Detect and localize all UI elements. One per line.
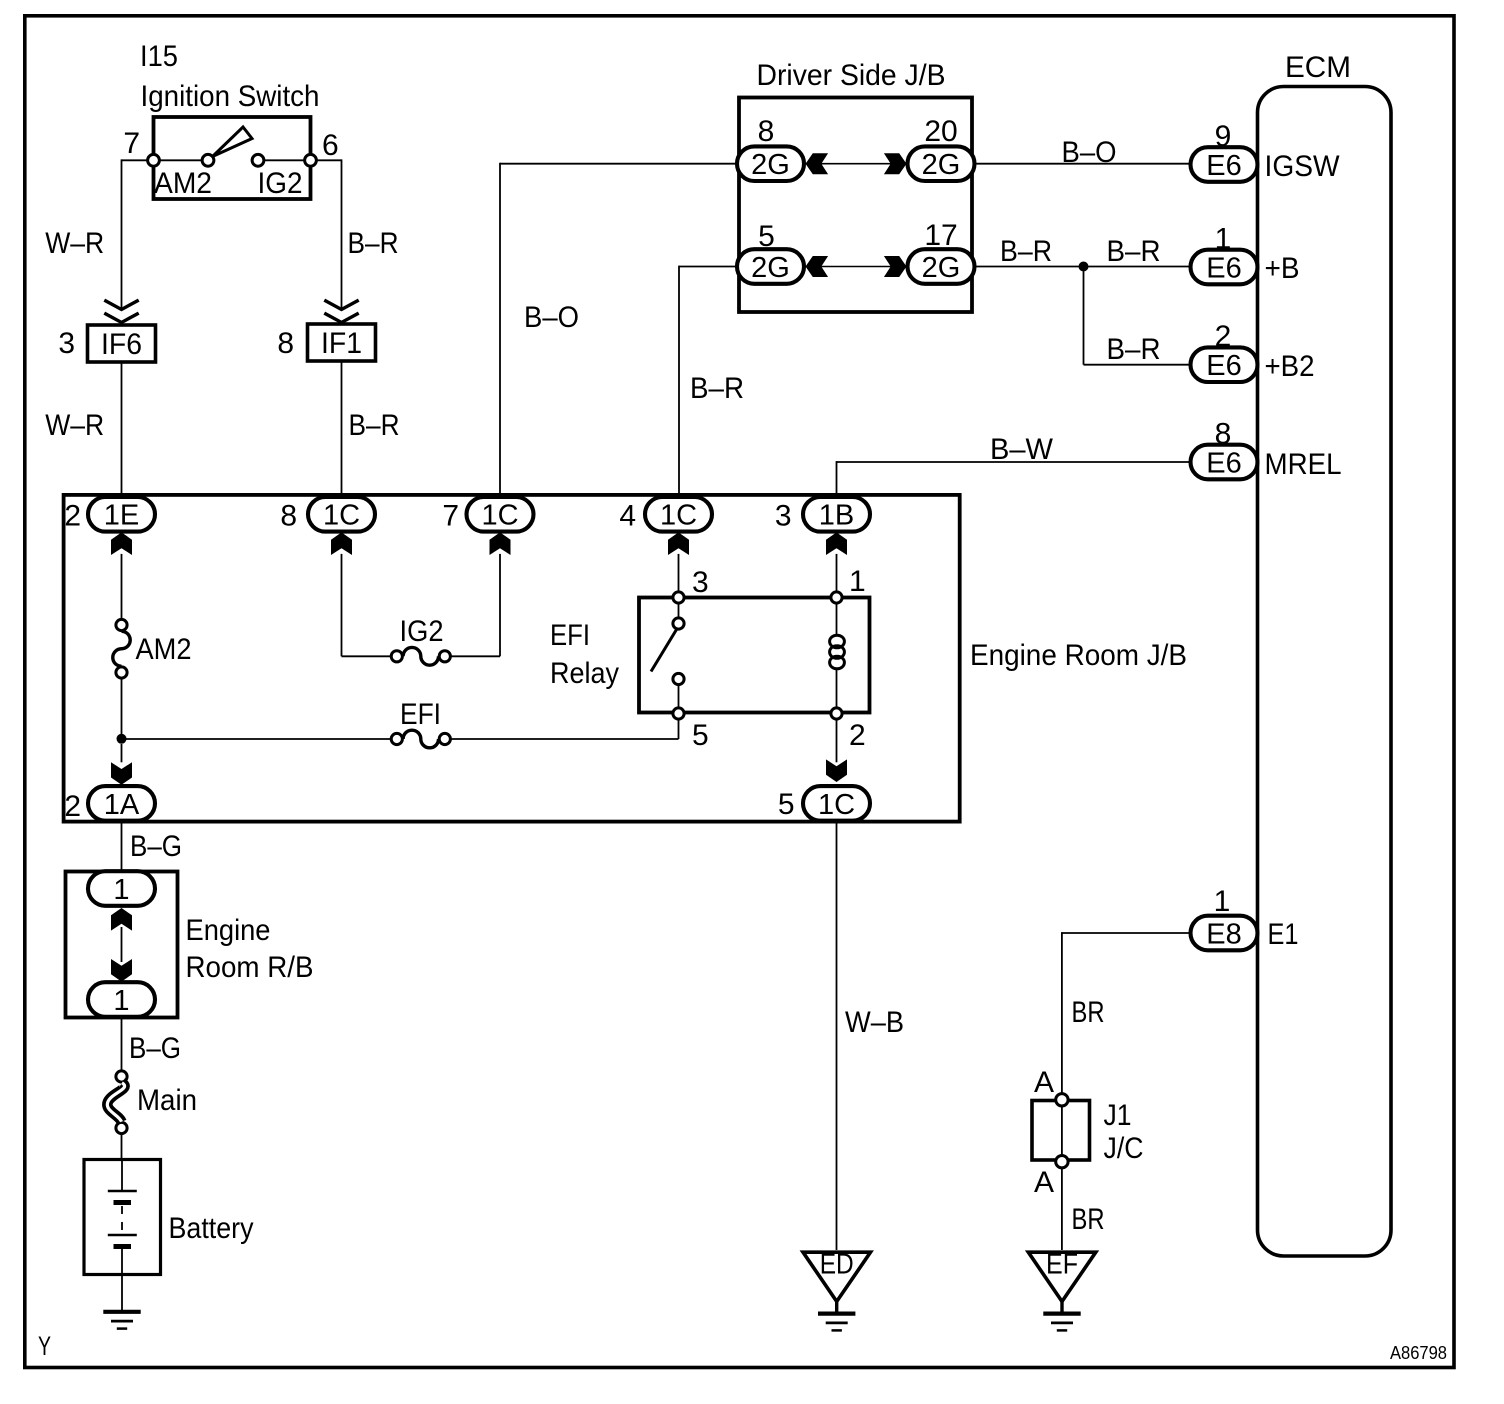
svg-text:1: 1 xyxy=(1215,222,1232,255)
svg-text:W–B: W–B xyxy=(845,1006,904,1039)
svg-text:3: 3 xyxy=(775,500,792,533)
svg-text:AM2: AM2 xyxy=(136,633,192,666)
svg-text:17: 17 xyxy=(924,219,957,252)
svg-text:1C: 1C xyxy=(481,500,518,532)
svg-text:BR: BR xyxy=(1072,1203,1105,1236)
svg-text:A: A xyxy=(1034,1166,1054,1199)
svg-text:E6: E6 xyxy=(1206,447,1241,479)
svg-text:IF6: IF6 xyxy=(101,328,142,361)
svg-text:B–G: B–G xyxy=(130,830,182,863)
svg-text:B–R: B–R xyxy=(348,227,399,260)
svg-text:IG2: IG2 xyxy=(400,615,444,648)
svg-text:2G: 2G xyxy=(751,252,790,284)
svg-text:AM2: AM2 xyxy=(154,167,212,200)
svg-text:8: 8 xyxy=(280,500,297,533)
svg-text:Engine: Engine xyxy=(186,914,271,947)
svg-text:EFI: EFI xyxy=(550,619,590,652)
svg-text:5: 5 xyxy=(778,788,795,821)
svg-text:2G: 2G xyxy=(751,149,790,181)
svg-text:1: 1 xyxy=(849,565,866,598)
svg-text:8: 8 xyxy=(758,115,775,148)
svg-text:2: 2 xyxy=(849,719,866,752)
svg-text:20: 20 xyxy=(924,115,957,148)
svg-text:B–R: B–R xyxy=(349,409,400,442)
svg-text:BR: BR xyxy=(1072,996,1105,1029)
svg-text:IG2: IG2 xyxy=(258,167,303,200)
svg-text:I15: I15 xyxy=(140,40,178,73)
svg-text:Engine Room J/B: Engine Room J/B xyxy=(970,639,1187,672)
svg-text:8: 8 xyxy=(1215,417,1232,450)
svg-text:1C: 1C xyxy=(818,789,855,821)
svg-text:2: 2 xyxy=(64,790,81,823)
svg-text:ED: ED xyxy=(820,1249,854,1281)
svg-text:2G: 2G xyxy=(922,149,961,181)
svg-text:1: 1 xyxy=(113,985,129,1017)
svg-text:B–R: B–R xyxy=(690,372,744,405)
svg-text:1: 1 xyxy=(1214,885,1231,918)
svg-text:A86798: A86798 xyxy=(1390,1343,1447,1363)
svg-text:IF1: IF1 xyxy=(321,327,362,360)
svg-text:Main: Main xyxy=(137,1084,197,1117)
svg-text:Battery: Battery xyxy=(169,1212,254,1245)
svg-text:Driver Side J/B: Driver Side J/B xyxy=(757,59,946,92)
svg-text:MREL: MREL xyxy=(1265,448,1342,481)
svg-text:B–R: B–R xyxy=(1107,333,1161,366)
svg-text:IGSW: IGSW xyxy=(1265,150,1341,183)
svg-text:5: 5 xyxy=(692,719,709,752)
svg-text:9: 9 xyxy=(1215,120,1232,153)
svg-text:B–R: B–R xyxy=(1000,235,1052,268)
svg-text:1A: 1A xyxy=(104,789,140,821)
svg-text:E6: E6 xyxy=(1206,150,1241,182)
svg-text:2: 2 xyxy=(64,500,81,533)
svg-text:Ignition Switch: Ignition Switch xyxy=(141,80,320,113)
svg-text:E8: E8 xyxy=(1206,918,1241,950)
svg-text:W–R: W–R xyxy=(45,227,104,260)
svg-text:1B: 1B xyxy=(819,500,854,532)
svg-text:8: 8 xyxy=(277,327,294,360)
svg-text:B–G: B–G xyxy=(129,1032,181,1065)
svg-text:7: 7 xyxy=(442,500,459,533)
svg-text:ECM: ECM xyxy=(1285,51,1351,84)
svg-text:6: 6 xyxy=(322,129,339,162)
svg-text:Y: Y xyxy=(38,1331,51,1361)
svg-text:1E: 1E xyxy=(104,500,139,532)
svg-text:3: 3 xyxy=(58,327,75,360)
svg-text:Room R/B: Room R/B xyxy=(186,951,314,984)
svg-text:EF: EF xyxy=(1046,1249,1078,1281)
svg-text:Relay: Relay xyxy=(550,657,619,690)
svg-text:1: 1 xyxy=(113,874,129,906)
svg-text:W–R: W–R xyxy=(45,409,104,442)
svg-text:3: 3 xyxy=(692,566,709,599)
svg-text:+B: +B xyxy=(1265,252,1300,285)
svg-text:B–W: B–W xyxy=(990,433,1054,466)
svg-text:2G: 2G xyxy=(922,252,961,284)
svg-text:4: 4 xyxy=(619,500,636,533)
svg-text:1C: 1C xyxy=(323,500,360,532)
svg-text:E6: E6 xyxy=(1206,252,1241,284)
svg-text:E1: E1 xyxy=(1268,918,1299,951)
svg-text:A: A xyxy=(1034,1066,1054,1099)
svg-text:5: 5 xyxy=(758,220,775,253)
svg-text:J/C: J/C xyxy=(1104,1132,1144,1165)
svg-text:1C: 1C xyxy=(660,500,697,532)
svg-text:B–O: B–O xyxy=(524,301,579,334)
svg-text:+B2: +B2 xyxy=(1265,350,1315,383)
svg-text:B–R: B–R xyxy=(1107,235,1161,268)
svg-text:7: 7 xyxy=(123,127,140,160)
svg-text:E6: E6 xyxy=(1206,350,1241,382)
svg-text:2: 2 xyxy=(1215,320,1232,353)
svg-text:J1: J1 xyxy=(1104,1099,1132,1132)
svg-text:EFI: EFI xyxy=(400,698,441,731)
svg-text:B–O: B–O xyxy=(1062,136,1117,169)
